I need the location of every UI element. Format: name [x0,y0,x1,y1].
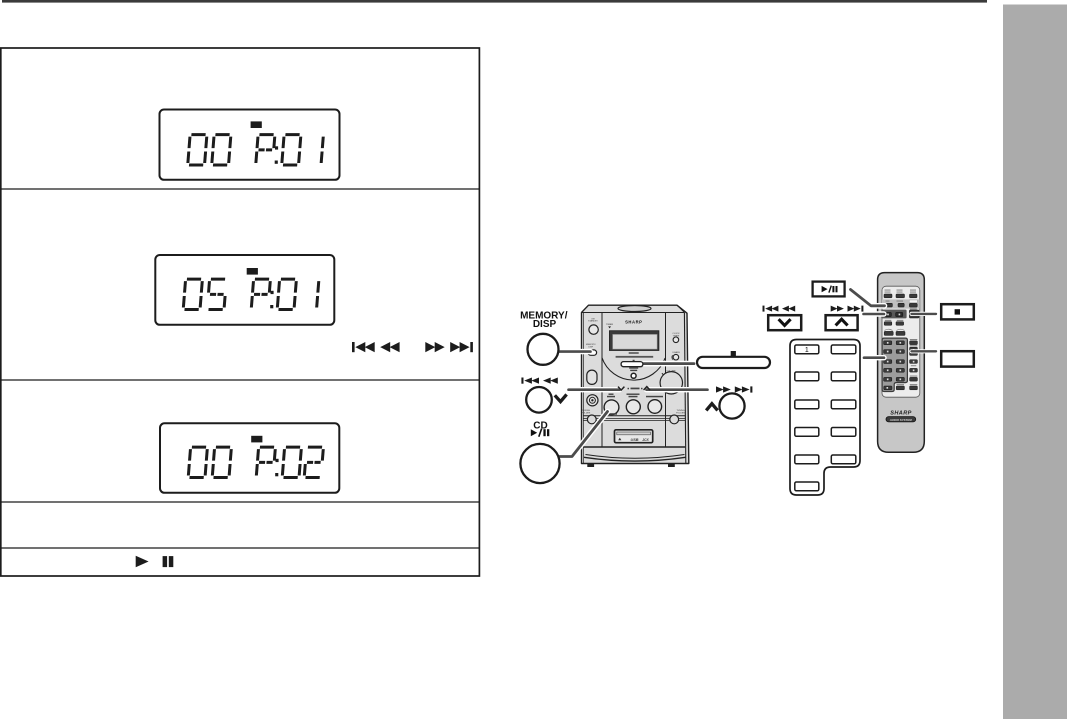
keypad button row 2 [795,372,819,381]
callout line open/close bar to pill [642,361,694,367]
remote bottom row buttons [897,383,905,386]
play/pause callout box [813,282,845,297]
skip-back icons callout [521,378,557,384]
unit cd knob sublabel [610,413,618,415]
remote stop button [910,308,917,311]
svg-text:DISP: DISP [533,319,557,330]
unit feet [587,464,594,467]
LCD display row1 "00 P.01" [160,110,340,180]
pill shaped open/close callout [697,357,770,368]
remote number buttons row y=368.4 [884,368,892,372]
up chevron callout box [826,315,858,330]
pause icon row5 [163,556,168,567]
remote second row band [882,299,920,308]
callout line play box to remote [851,290,885,306]
skip-forward icons row2 [425,342,473,352]
unit phones jack [587,395,598,406]
preset down chevron [555,394,567,401]
circle skip-back [526,387,552,413]
unit open/close dash [633,360,635,361]
svg-text:STANDBY: STANDBY [588,320,598,323]
unit tuning bracket left [587,415,596,424]
unit display window [609,331,659,351]
unit preset markers [618,387,624,390]
unit x-bass knob [627,394,640,395]
unit open/close bar redraw [621,362,643,367]
skip-back icons above down box [763,306,796,312]
remote number pad box [882,338,907,391]
keypad button row 4 [795,428,819,437]
svg-text:SHARP: SHARP [625,320,642,325]
keypad button row 5 [795,455,819,464]
blank callout box [941,351,974,366]
LCD display row2 "05 P.01" [155,255,334,325]
stop square above pill [731,351,736,356]
stereo unit body 3d box [582,305,689,463]
circle CD play/pause [520,444,559,483]
circle preset up [719,393,744,418]
unit open/close label [629,367,638,368]
callout line keypad panel to remote [864,355,884,360]
instruction table frame [1,48,480,576]
svg-text:FOLDER: FOLDER [676,412,685,414]
svg-text:X-BASS: X-BASS [672,351,680,354]
unit model text lines [629,352,639,354]
unit tuner knob [646,396,663,398]
remote number buttons row y=359.7 [884,360,892,364]
skip-back icons row2 [352,342,400,352]
remote 10+ angled button [884,386,892,390]
LCD display row3 "00 P.02" [160,423,339,493]
remote number buttons row y=349.6 [884,350,892,354]
unit horizontal seams [583,415,685,417]
svg-text:USB: USB [630,438,638,442]
svg-text:FOLDER: FOLDER [582,412,591,414]
callout line remote to stop box [912,312,937,316]
svg-text:DISP: DISP [588,346,593,348]
svg-text:1: 1 [805,347,809,354]
svg-text:JCX: JCX [642,438,649,442]
remote number buttons row y=340.9 [884,341,892,345]
unit open/close bar [622,364,644,368]
remote play/pause button [886,303,892,307]
keypad button row 6 [795,482,819,491]
keypad overlay panel [790,340,860,496]
remote audio system badge [886,417,916,422]
unit column seams [601,313,603,447]
unit usb door [615,430,653,443]
unit open/close button [631,373,636,378]
svg-text:SHARP: SHARP [890,411,912,417]
keypad button row 1 [795,345,819,354]
callout line up/down boxes to remote [864,311,885,316]
stop callout box [941,304,974,319]
callout line preset-up from unit [647,387,708,392]
preset up chevron [706,404,717,411]
remote control body [878,273,925,453]
svg-text:AUDIO SYSTEM: AUDIO SYSTEM [889,418,913,422]
unit top CD lid ellipse [618,306,651,312]
circle MEMORY/DISP [528,334,559,365]
callout line preset-down to unit [569,387,620,392]
remote number buttons row y=377.4 [884,377,892,381]
remote up/down nav box [881,310,906,319]
down chevron callout box [768,315,801,330]
unit bottom curves [586,455,685,459]
remote row4 buttons [885,319,892,322]
callout line MEMORY/DISP to unit [560,349,591,354]
keypad button row 3 [795,400,819,409]
right gray sidebar [1003,5,1067,719]
svg-text:TIMER: TIMER [606,324,613,326]
remote right column buttons [910,338,918,341]
play icon row5 [136,556,149,567]
remote inner panel [882,286,920,397]
skip-forward icons right of unit [716,386,752,392]
skip-forward icons above up box [831,306,864,312]
remote row5 buttons [885,329,893,330]
callout line remote to blank box [912,349,937,353]
unit left door slot [587,370,597,384]
callout line CD knob diagonal [560,412,608,457]
unit CD door arc [602,358,665,381]
top rule bar [2,0,987,3]
unit tuning bracket right [670,415,679,424]
remote top row buttons [885,289,891,292]
unit CD knob [607,396,615,398]
